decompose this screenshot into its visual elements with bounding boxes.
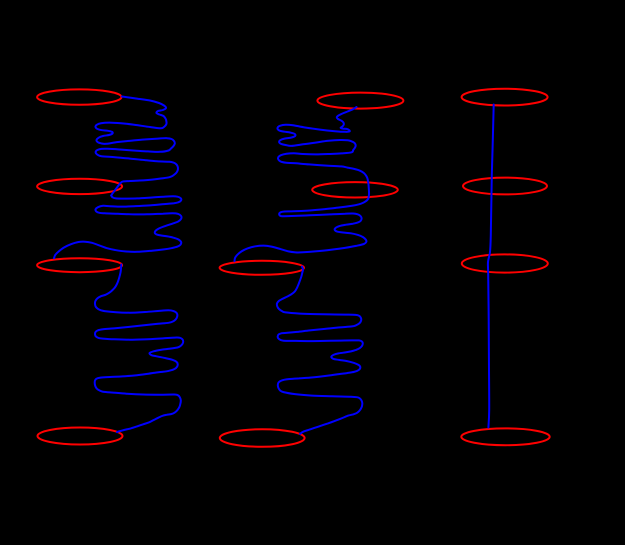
red ellipse mid-1 [317,93,403,109]
red ellipse right-1 [462,89,548,106]
red ellipse left-3 [37,258,122,272]
blue squiggle mid e1-e2 [277,107,369,199]
red ellipse left-2 [37,179,122,194]
red ellipse mid-4 [220,429,305,447]
blue squiggle left e1-e2 [95,97,178,196]
red ellipse right-4 [461,428,549,445]
red ellipse mid-2 [312,182,398,197]
red ellipse right-3 [462,254,548,272]
blue squiggle left e2-e3 [54,196,181,259]
blue squiggle mid e2-e3 [235,199,369,262]
blue squiggle mid e3-e4 [277,267,363,434]
red ellipse mid-3 [220,261,304,275]
red ellipse left-4 [38,428,123,445]
blue straight line right column [488,105,494,428]
blue squiggle left e3-e4 [95,265,184,433]
red ellipse right-2 [463,178,547,195]
red ellipse left-1 [37,89,121,104]
